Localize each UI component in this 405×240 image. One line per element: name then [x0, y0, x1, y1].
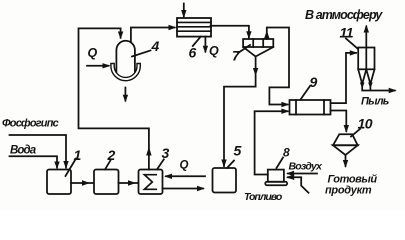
wire mixer 10 product outlet down — [343, 155, 348, 168]
wire vessel 4 top outlet to heat exchanger 6 — [131, 25, 177, 42]
leader 2 — [105, 159, 111, 169]
mixer-repulper box 1 — [47, 170, 71, 195]
svg-text:4: 4 — [151, 38, 160, 54]
calciner box 3 with sigma coil — [139, 170, 163, 195]
wire recycle from calciner 3 up-left-up-right into vessel 4 — [79, 28, 152, 169]
svg-text:Фосфогипс: Фосфогипс — [2, 118, 59, 130]
svg-text:8: 8 — [283, 146, 290, 160]
drum 9 (rotary dryer) — [290, 100, 331, 115]
svg-text:3: 3 — [162, 145, 170, 161]
wire drum 9 upper outlet right-up-right into cyclone 11 — [331, 50, 358, 103]
svg-text:Q: Q — [180, 160, 189, 172]
svg-text:10: 10 — [358, 116, 373, 132]
wire air arrow into furnace 8 — [286, 171, 317, 176]
wire drum 9 lower outlet right-down into mixer 10 — [331, 111, 350, 134]
wire arrow box 2 to box 3 — [119, 180, 139, 185]
wire top feed arrow into exchanger 6 — [181, 4, 186, 19]
leader 4 — [132, 51, 151, 57]
wire cyclone 11 dust outlet right (Pyl) — [360, 83, 397, 94]
leader 5 — [227, 161, 234, 169]
vessel 4 (granulator with cup bottom) — [111, 41, 140, 81]
svg-text:9: 9 — [310, 74, 318, 90]
wire exchanger 6 outlet to multicyclone 7 — [211, 26, 252, 39]
svg-text:В атмосферу: В атмосферу — [305, 8, 383, 22]
mixer 10 — [333, 134, 358, 155]
svg-text:Q: Q — [88, 46, 98, 60]
svg-text:Пыль: Пыль — [361, 96, 389, 108]
leader 9 — [301, 86, 311, 100]
bin box 5 — [213, 168, 237, 193]
wire arrow box 1 to box 2 — [71, 180, 94, 185]
svg-text:7: 7 — [232, 48, 241, 64]
svg-text:1: 1 — [74, 147, 82, 163]
wire water feed line into box 1 — [10, 156, 60, 169]
svg-text:продукт: продукт — [325, 185, 372, 197]
wire phosphogypsum feed line into box 1 — [10, 135, 69, 169]
wire Q heat arrow down from exchanger 6 — [203, 37, 208, 54]
multicyclone 7 — [243, 39, 273, 57]
leader 7 — [238, 45, 250, 53]
wire furnace 8 hot gas left-up-right into drum 9 — [255, 109, 290, 175]
battery cyclone 11 — [358, 48, 374, 85]
furnace 8 — [265, 170, 287, 186]
leader 1 — [66, 159, 77, 177]
svg-text:Вода: Вода — [10, 145, 37, 157]
svg-text:2: 2 — [107, 147, 116, 163]
wire Q heat arrow into vessel 4 — [87, 63, 111, 68]
wire solids from multicyclone 7 down-left-down into bin 5 — [221, 57, 258, 168]
svg-text:Воздух: Воздух — [289, 161, 324, 173]
svg-text:5: 5 — [234, 143, 242, 159]
wire gas from multicyclone 7 up-right-down into drum 9 — [264, 28, 289, 108]
svg-text:Q: Q — [209, 44, 219, 58]
wire fuel inlet into furnace 8 — [286, 174, 309, 192]
wire cyclone 11 exhaust to atmosphere — [364, 25, 369, 48]
svg-text:Топливо: Топливо — [244, 191, 283, 203]
svg-text:11: 11 — [340, 25, 354, 41]
leader 6 — [193, 37, 201, 46]
heat exchanger 6 — [177, 18, 211, 37]
leader 11 — [346, 39, 358, 49]
leader 3 — [157, 159, 164, 169]
wire vessel 4 bottom outlet arrow — [123, 88, 128, 103]
wire Q output arrow from calciner 3 — [163, 186, 206, 191]
leader 8 — [277, 158, 284, 169]
box 2 — [94, 170, 119, 195]
leader 10 — [351, 129, 360, 137]
svg-text:6: 6 — [189, 45, 197, 61]
wire Q input arrow into calciner 3 — [164, 174, 205, 179]
